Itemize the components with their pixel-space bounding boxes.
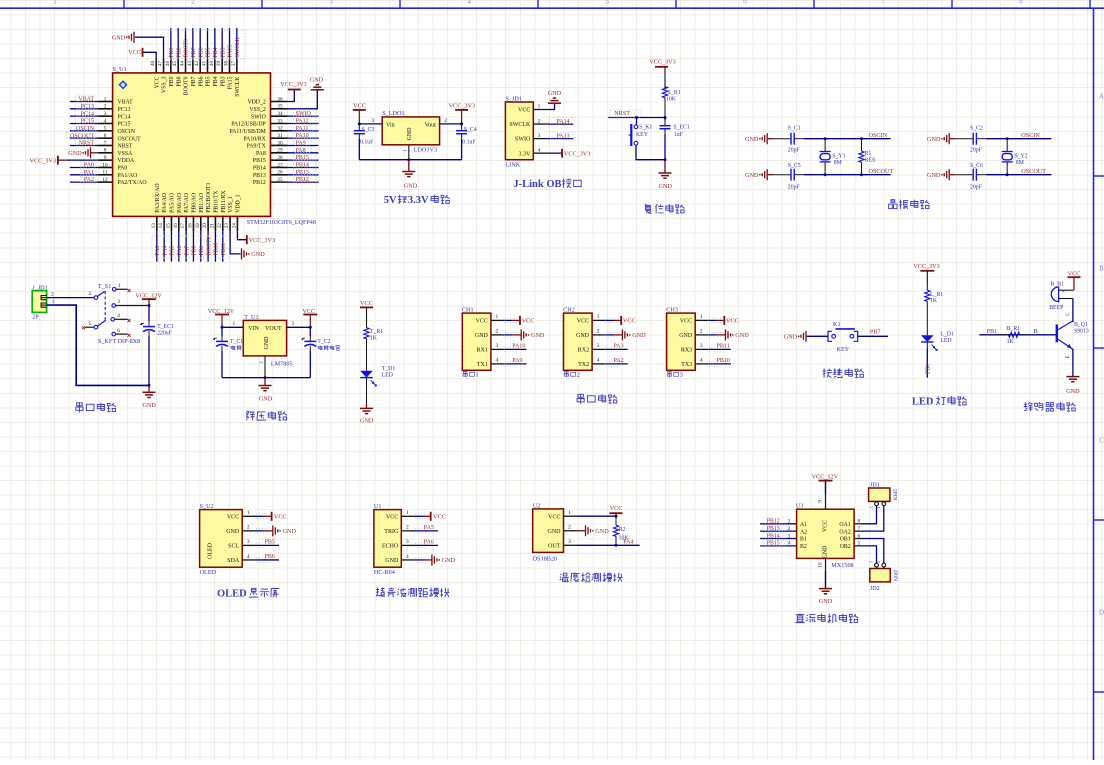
wires U1 pins [401,514,425,562]
svg-text:19: 19 [195,223,201,229]
svg-text:OLED: OLED [200,569,217,576]
svg-text:4: 4 [700,358,703,364]
wire 7805 gnd pin [264,356,266,378]
svg-text:PA1: PA1 [84,170,94,176]
wire OSCIN net [986,138,1051,140]
svg-text:VCC: VCC [610,505,623,512]
svg-text:GND: GND [442,557,456,564]
svg-text:LINK: LINK [505,161,520,168]
svg-text:20pF: 20pF [970,184,983,190]
wire collector to buzzer [1072,299,1073,322]
svg-text:1: 1 [247,510,250,516]
svg-text:BOOT1: BOOT1 [206,237,212,256]
svg-text:PA15: PA15 [228,45,234,58]
svg-text:PA12: PA12 [296,118,309,124]
svg-text:3: 3 [568,539,571,545]
caption buzzer circuit [1024,402,1033,411]
svg-text:PA10: PA10 [296,133,309,139]
wire U1 pin36 VDD_2 to VCC_3V3 [288,90,295,102]
svg-text:2: 2 [406,525,409,531]
svg-text:20pF: 20pF [970,148,983,154]
svg-text:PC14: PC14 [118,114,131,120]
svg-text:40: 40 [209,61,215,67]
wire OSCOUT net [986,174,1051,176]
svg-text:PB3: PB3 [220,76,226,86]
svg-text:16: 16 [173,223,179,229]
svg-text:1: 1 [475,372,478,379]
svg-text:12: 12 [102,177,108,183]
connector JD1 body [869,488,890,501]
svg-text:8: 8 [858,519,861,525]
svg-text:SWIO: SWIO [251,114,266,120]
svg-text:TX3: TX3 [681,362,692,368]
svg-text:VCC: VCC [386,514,398,520]
svg-text:3: 3 [104,111,107,117]
svg-text:GND: GND [385,558,399,564]
svg-text:5: 5 [104,126,107,132]
wire CH1 pin4 [505,363,527,365]
wire OSCOUT net [804,174,891,176]
wire CH2 pin3 [606,348,628,350]
ground at U1 pin8 VSSA [90,147,92,158]
svg-text:PB13: PB13 [296,170,309,176]
svg-text:TRIG: TRIG [384,529,399,535]
caption crystal circuit [889,200,897,209]
svg-text:PA3: PA3 [614,344,624,350]
svg-text:GND: GND [404,182,418,189]
svg-text:T_C2: T_C2 [317,339,330,345]
svg-text:PB9: PB9 [169,76,175,86]
svg-text:GND: GND [226,529,240,535]
ground CH3 [725,329,727,340]
svg-text:36: 36 [277,96,283,102]
svg-text:GND: GND [927,136,941,143]
svg-text:3: 3 [117,299,120,305]
svg-text:4: 4 [788,541,791,547]
wire U1 pin24 VDD_1 to VCC_3V3 [237,231,246,240]
wire CH3 pin2 GND [709,334,717,336]
svg-text:PA5/AO: PA5/AO [170,193,176,213]
wire OB2 to JD2 [861,546,877,563]
MCU U1 pin stub wires bottom [157,216,238,231]
svg-text:PB10/TX: PB10/TX [214,190,220,213]
svg-text:2: 2 [577,372,580,379]
svg-text:PA8: PA8 [256,151,266,157]
svg-text:PA9/TX: PA9/TX [247,144,267,150]
svg-text:6: 6 [858,533,861,539]
svg-text:2: 2 [444,118,447,124]
svg-text:2: 2 [496,329,499,335]
svg-text:A2: A2 [800,529,807,535]
svg-text:PA9: PA9 [296,140,306,146]
svg-text:11: 11 [103,170,108,176]
svg-text:39: 39 [216,61,222,67]
svg-text:PB6: PB6 [198,76,204,86]
svg-text:JD1: JD1 [870,481,880,488]
svg-text:3: 3 [247,539,250,545]
svg-text:4: 4 [467,0,471,5]
J_JD1 pin brackets [41,296,47,300]
svg-text:NRST: NRST [118,144,133,150]
crystal S_Y2 [1006,139,1008,152]
svg-text:PA12/USB/DP: PA12/USB/DP [231,122,266,128]
power VCC OLED [271,512,273,521]
svg-text:1: 1 [52,299,55,305]
svg-text:RX1: RX1 [477,348,488,354]
svg-text:2: 2 [788,526,791,532]
svg-text:GND: GND [360,418,374,425]
svg-text:VCC: VCC [360,300,373,307]
wire CH3 pin4 [709,363,731,365]
svg-text:4: 4 [104,118,107,124]
svg-text:U2: U2 [533,502,541,509]
U1 pin numbers top 48-37 (rotated) [150,61,237,67]
wires U1 left net labels [70,102,98,183]
svg-text:STM32F103C8T6_LQFP48: STM32F103C8T6_LQFP48 [247,220,316,226]
ground top-left of U1 [133,32,135,43]
svg-text:B: B [1099,265,1104,273]
connector U1 body [374,510,401,568]
svg-text:VCC_3V3: VCC_3V3 [449,103,475,110]
wire OA1 to JD1 [861,506,877,524]
svg-text:B: B [1034,329,1038,335]
junction temp out [615,544,618,547]
svg-text:7: 7 [858,526,861,532]
svg-text:GND: GND [264,336,270,350]
caption temperature module [560,573,569,581]
svg-text:Vout: Vout [425,122,437,128]
wire OA2 to JD1 [861,506,884,531]
svg-text:8: 8 [1019,0,1023,5]
ground CH2 [621,329,623,340]
subcaption 串口1 [463,371,467,377]
svg-text:1: 1 [568,510,571,516]
wire ultrasonic pin4 GND [415,559,423,561]
svg-text:J_JD1: J_JD1 [32,284,47,291]
svg-text:S_C5: S_C5 [788,163,801,169]
svg-text:8M: 8M [1016,160,1024,166]
svg-text:PA8: PA8 [296,148,306,154]
svg-text:PA2: PA2 [84,177,94,183]
svg-text:PA4: PA4 [162,246,168,256]
svg-text:PA9: PA9 [512,358,522,364]
svg-text:PB9: PB9 [169,47,175,57]
svg-text:PB12: PB12 [253,180,266,186]
caption DC motor circuit [795,613,804,622]
svg-text:1: 1 [53,0,57,5]
wire key to PB7 [858,335,888,337]
svg-text:9: 9 [104,155,107,161]
wire emitter to gnd [1072,349,1073,377]
svg-text:VCC: VCC [623,318,636,325]
power VCC top-left of U1 [142,48,144,57]
svg-text:S_K1: S_K1 [639,125,652,131]
wires CH3 pins [695,318,721,366]
wire U1 pin35 VSS_2 to GND [288,90,318,109]
svg-text:GND: GND [251,251,265,258]
svg-text:10K: 10K [666,97,677,103]
svg-text:33: 33 [277,118,283,124]
ground ultrasonic [431,554,433,565]
svg-text:PB13: PB13 [253,173,266,179]
subcaption 串口3 [667,371,671,377]
svg-text:C: C [1099,437,1104,445]
svg-text:JD2: JD2 [870,585,880,592]
svg-text:PB11: PB11 [221,243,227,256]
svg-text:S_C4: S_C4 [464,127,477,133]
svg-text:PB15: PB15 [767,541,780,547]
svg-text:RX2: RX2 [578,348,589,354]
junction 7805 gnd [264,376,267,379]
svg-text:CH3: CH3 [666,307,678,314]
svg-text:PB13: PB13 [767,526,780,532]
svg-text:PA15: PA15 [228,76,234,89]
svg-text:OB1: OB1 [840,537,851,543]
svg-text:R1: R1 [865,151,872,157]
ground GND1 bottom [766,169,768,180]
svg-text:5: 5 [89,321,92,327]
wire DS18B20 pin3 OUT / PA4 [578,544,640,546]
svg-text:TX2: TX2 [578,362,589,368]
svg-text:S_Y1: S_Y1 [832,153,845,159]
svg-text:3: 3 [538,133,541,139]
wire MX1508 vcc pin9 [825,481,827,509]
svg-text:GND: GND [142,402,156,409]
svg-text:3: 3 [406,539,409,545]
wire U1 pin23 VSS_1 to GND [230,231,240,254]
svg-text:VCC: VCC [518,108,530,114]
svg-text:OSCOUT: OSCOUT [118,136,142,142]
svg-text:PA3: PA3 [155,246,161,256]
svg-text:RES: RES [865,157,876,163]
svg-text:SDA: SDA [227,558,240,564]
ground temperature [585,525,587,536]
ground below LDO [408,160,410,172]
svg-text:VSSA: VSSA [118,151,134,157]
svg-text:VBAT: VBAT [78,97,94,103]
svg-text:SWCLK: SWCLK [235,36,241,57]
svg-text:PA10/RX: PA10/RX [243,136,266,142]
svg-text:GND: GND [632,332,646,339]
svg-text:OSCIN: OSCIN [1021,132,1040,139]
svg-text:0.1uF: 0.1uF [360,139,374,145]
svg-text:9: 9 [818,500,824,503]
svg-text:20pF: 20pF [788,148,801,154]
svg-text:3: 3 [291,321,294,327]
connector J_JD1 body [32,291,46,313]
svg-text:1: 1 [788,519,791,525]
capacitor S_C1 [774,138,791,140]
wire OB1 to JD2 [861,539,884,564]
wire DS18B20 pin2 GND [578,530,586,532]
resistor L_R1 [926,285,928,291]
ground above pin35 [311,89,324,91]
svg-text:20: 20 [202,223,208,229]
svg-text:VCC: VCC [154,76,160,88]
wire LDO gnd pin down [408,145,410,160]
svg-text:25: 25 [277,177,283,183]
svg-text:RX3: RX3 [681,348,692,354]
svg-text:PB4: PB4 [213,47,219,57]
svg-text:7: 7 [881,0,885,5]
U1 pin numbers left 1-12 [102,96,108,183]
junction temp vcc [615,515,618,518]
svg-text:24: 24 [231,223,237,229]
svg-text:VCC: VCC [128,49,141,56]
wire DS18B20 pin1 to VCC node [578,515,617,517]
svg-text:KEY: KEY [636,132,649,138]
svg-text:PA4: PA4 [623,539,633,545]
connector CH1 body [462,313,491,370]
wire CH1 pin1 VCC [505,319,513,321]
svg-text:1K: 1K [930,298,938,304]
svg-text:7: 7 [104,140,107,146]
svg-text:2: 2 [104,104,107,110]
wire ultrasonic pin2 PA5 [415,530,438,532]
svg-text:PB8: PB8 [176,47,182,57]
svg-text:SWCLK: SWCLK [235,76,241,97]
svg-text:U1: U1 [374,503,382,510]
connector CH2 body [564,313,593,370]
svg-text:PB5: PB5 [265,540,275,546]
svg-text:5: 5 [605,0,609,5]
svg-text:R2: R2 [619,527,626,533]
wire J_JD1 pin2 to switch [47,297,94,299]
caption serial circuits [577,394,584,404]
net labels U1 top (rotated) [169,36,241,57]
svg-text:S_R1: S_R1 [668,90,681,96]
svg-text:PB15: PB15 [253,158,266,164]
sheet border frame top [0,7,1104,9]
svg-text:VCC: VCC [353,103,366,110]
caption serial port circuit [76,402,83,412]
svg-text:S_JD1: S_JD1 [505,96,522,103]
svg-text:21: 21 [209,223,215,229]
svg-text:BOOT0: BOOT0 [184,76,190,95]
svg-text:PB1: PB1 [199,245,205,255]
junction reset node [635,116,638,119]
U1 pin names right side [229,100,266,187]
svg-text:VCC_12V: VCC_12V [135,292,162,299]
svg-text:T_S1: T_S1 [98,283,111,290]
svg-text:VCC: VCC [548,514,560,520]
power VCC left of LDO [353,109,366,111]
power VCC_3V3 at J-Link pin4 [561,149,563,158]
ground motor [819,588,832,590]
svg-text:PA7: PA7 [184,246,190,256]
wire OLED pin3 PB5 [256,544,279,546]
capacitor S_C4 [461,124,463,131]
wires CH1 pins [491,318,517,366]
junction gnd node serial [148,384,151,387]
svg-text:S_Y2: S_Y2 [1014,153,1027,159]
svg-text:4: 4 [538,147,541,153]
svg-text:1: 1 [869,561,874,563]
svg-text:MX1508: MX1508 [831,562,853,569]
svg-text:GND: GND [310,77,324,84]
svg-text:2: 2 [700,329,703,335]
svg-text:PB5: PB5 [206,76,212,86]
caption buck circuit [247,411,255,420]
svg-text:1K: 1K [370,336,378,342]
svg-text:U3: U3 [796,503,804,510]
wire CH3 pin1 VCC [709,319,717,321]
wire J-Link pin3 PA13 [548,138,574,140]
crystal S_Y1 [824,139,826,152]
svg-text:1: 1 [700,314,703,320]
capacitor S_C6 [956,174,974,176]
svg-text:PC14: PC14 [81,111,94,117]
svg-text:VCC_3V3: VCC_3V3 [649,59,675,66]
ground GND2 bottom [948,169,950,180]
svg-text:PA0: PA0 [84,163,94,169]
svg-text:48: 48 [150,61,156,67]
svg-text:PB12: PB12 [767,519,780,525]
ground above J-Link [548,102,561,104]
svg-text:2: 2 [568,525,571,531]
power VCC CH3 [723,316,725,325]
svg-text:PB6: PB6 [265,554,275,560]
regulator U LDO1 body [382,117,439,145]
svg-text:2PIN: 2PIN [892,570,898,581]
svg-text:PB6: PB6 [198,47,204,57]
svg-text:LED: LED [940,338,951,344]
svg-text:S_C1: S_C1 [788,125,801,131]
svg-text:PA2/TX/AO: PA2/TX/AO [118,180,147,186]
capacitor T_EC1 220uF [148,321,150,327]
svg-text:41: 41 [202,61,208,67]
svg-text:VSS_3: VSS_3 [162,76,168,93]
svg-text:42: 42 [194,61,200,67]
svg-text:VBAT: VBAT [118,100,134,106]
svg-text:A1: A1 [800,522,807,528]
svg-text:PB7: PB7 [191,47,197,57]
subcaption 串口2 [564,371,568,377]
resistor R2 pull-up [615,516,617,525]
junctions crystal [1006,137,1009,140]
svg-text:SWIO: SWIO [515,137,531,143]
svg-text:S_U1: S_U1 [113,66,127,73]
svg-text:15: 15 [165,223,171,229]
svg-text:PA2: PA2 [614,358,624,364]
svg-text:1: 1 [406,510,409,516]
ground OLED [272,525,274,536]
svg-text:OSCIN: OSCIN [869,132,888,139]
capacitor S_C2 [956,138,974,140]
wire J-Link pin2 PA14 [548,123,574,125]
svg-text:ECHO: ECHO [382,544,399,550]
svg-text:PB1: PB1 [987,328,998,335]
svg-text:T_D1: T_D1 [382,366,396,372]
junction 7805 out [309,326,312,329]
svg-text:B_R1: B_R1 [1007,326,1021,332]
wires U1 top net labels [171,28,237,59]
wire ultrasonic pin3 PA6 [415,544,438,546]
svg-text:44: 44 [180,61,186,67]
ground bottom-right of U1 [241,248,243,259]
MCU U1 pin stub wires right [271,102,288,183]
svg-text:K1: K1 [833,321,841,328]
junction 7805 in [221,326,224,329]
power VCC_3V3 bottom-right of U1 [246,235,248,244]
wire CH2 pin1 VCC [606,319,614,321]
svg-text:35: 35 [277,104,283,110]
svg-text:VCC_3V3: VCC_3V3 [280,81,306,88]
ground key circuit [805,331,807,342]
svg-text:30: 30 [277,140,283,146]
svg-text:PB10: PB10 [717,358,730,364]
svg-text:B_Q1: B_Q1 [1074,322,1088,328]
